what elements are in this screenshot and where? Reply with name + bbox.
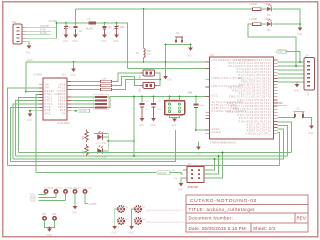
wire IC2 VCC pin: [26, 91, 39, 93]
ground below S1: [308, 126, 314, 136]
svg-text:SHD: SHD: [45, 113, 52, 115]
node LED2 rail junction: [299, 23, 301, 25]
IC1 bottom label: [210, 142, 236, 145]
mount hole H2 label: [143, 207, 185, 212]
svg-text:RG: RG: [267, 14, 271, 17]
node IC2 VCC junction: [25, 91, 27, 93]
label TJ01: [30, 193, 36, 196]
svg-text:FB02: FB02: [58, 94, 66, 96]
wire S2 left leg to VCC rail: [165, 45, 167, 63]
wire IC2 to RN1 row3: [71, 103, 95, 105]
op-amp IC2 USB bridge box: [43, 78, 67, 120]
label VUSB5: [49, 19, 58, 23]
testpoint TP2: [54, 190, 57, 198]
node rail junction x196: [195, 96, 197, 98]
node S1 left: [293, 117, 295, 119]
wire LED1 to right: [273, 9, 301, 28]
connector JP2 name: [308, 91, 310, 96]
ground below fuse rail: [163, 76, 172, 82]
wire VCC down to IC2: [25, 62, 27, 92]
ground right of LEDs: [297, 28, 303, 37]
node resonator junction b: [179, 96, 181, 98]
wire crystal right bus: [155, 73, 161, 86]
wire IC1 to JP2 pin5: [278, 77, 305, 79]
wire ISP SCK up: [204, 156, 219, 174]
wire IC1 to JP2 pin6: [278, 81, 305, 83]
wire ISP MOSI up: [204, 153, 223, 179]
node TXRX junction: [107, 140, 109, 142]
pushbutton S1 label: [297, 107, 301, 111]
svg-text:GND: GND: [171, 125, 176, 127]
resistor R1 22R: [71, 73, 141, 83]
svg-text:GND: GND: [297, 34, 302, 36]
svg-text:C9: C9: [145, 101, 149, 103]
svg-text:UTP-CDRC: UTP-CDRC: [96, 143, 108, 145]
title block text: Sheet row: [253, 226, 276, 231]
svg-text:UCM00: UCM00: [33, 73, 42, 77]
LED2 label: [265, 18, 272, 21]
LED D2: [267, 19, 272, 26]
testpoint TP6: [43, 217, 46, 220]
svg-text:F1: F1: [136, 52, 139, 55]
svg-text:RS: RS: [174, 178, 178, 180]
resonator Q3: [165, 101, 185, 115]
svg-text:mA: mA: [147, 53, 151, 56]
node serial junction RX: [295, 65, 297, 67]
resistor R5: [253, 23, 262, 26]
svg-text:9N0dN0dN0dN0dV0LNE2.8: 9N0dN0dN0dN0dV0LNE2.8: [146, 210, 184, 212]
ground below VCC rail: [70, 69, 76, 78]
svg-text:170RM: 170RM: [249, 18, 257, 21]
wire IC1 spare down: [278, 133, 280, 166]
svg-text:GND: GND: [72, 213, 77, 215]
label IC2 refdes: [33, 73, 66, 77]
testpoint TP7: [53, 217, 56, 220]
label TJ03 net: [277, 102, 283, 105]
svg-text:REV:: REV:: [297, 216, 307, 221]
resistor R5 label: [249, 18, 257, 21]
capacitor C5: [64, 23, 68, 35]
IC1 right column pin names: [227, 59, 272, 136]
wire X1 pin5 to ground: [26, 42, 29, 46]
node ISP rail A junction: [222, 152, 224, 154]
wire top rail: [76, 8, 253, 10]
wire +5V rail: [110, 96, 206, 98]
capacitor C11 label: [199, 105, 205, 107]
wire rail A: [19, 152, 292, 154]
svg-text:(PB6(XTAL1/PCB6): (PB6(XTAL1/PCB6): [212, 77, 244, 80]
node top rail junction: [143, 8, 145, 10]
label UCC: [27, 58, 33, 62]
label TJ05: [30, 199, 36, 202]
svg-text:H3: H3: [126, 219, 130, 221]
node S2 left junction: [165, 44, 167, 46]
testpoint TP5: [83, 190, 86, 204]
svg-text:H2: H2: [143, 207, 147, 209]
LED D3 label: [96, 143, 108, 145]
wire X1 pin4 to VUSB rail: [26, 23, 57, 38]
mount hole H3 label: [126, 219, 130, 221]
mount hole H4: [135, 218, 141, 224]
svg-text:TJ03: TJ03: [277, 102, 283, 105]
svg-text:D-5A: D-5A: [40, 28, 46, 32]
svg-text:(PB7(XTAL2/PCB7): (PB7(XTAL2/PCB7): [212, 85, 244, 88]
label net UCC5B: [40, 24, 49, 28]
svg-text:UCC5B: UCC5B: [40, 24, 49, 28]
ground below holes column2: [128, 226, 134, 235]
wire IC2 pin to rail E: [11, 108, 40, 162]
wire ISP pin5 to ground: [181, 178, 187, 183]
label net D-5: [40, 28, 46, 32]
resistor R4: [253, 8, 262, 11]
wire IC1 TX to serial connector: [278, 61, 305, 63]
wire RN1 outputs to rail: [107, 97, 110, 108]
wire top rail to fuse: [143, 9, 145, 48]
node rail junction x134: [133, 96, 135, 98]
svg-text:1K0: 1K0: [83, 135, 85, 140]
svg-text:1u: 1u: [69, 26, 72, 29]
node resonator junction a: [169, 96, 171, 98]
testpoint TP1: [44, 190, 47, 195]
node VCC junction at 73.5: [73, 61, 75, 63]
resistor R2 22R: [71, 77, 141, 87]
node S1 right: [302, 117, 304, 119]
capacitor C5 value: [69, 26, 72, 29]
title block text: REV: [297, 216, 307, 221]
wire IC1 to JP2 pin4: [278, 73, 305, 75]
node serial junction TX: [299, 61, 301, 63]
svg-text:170RM: 170RM: [249, 3, 257, 6]
svg-text:UCC: UCC: [27, 58, 33, 62]
wire TX LED anode: [103, 136, 109, 138]
connector JP2 label: [305, 55, 310, 58]
svg-text:FB01: FB01: [58, 104, 66, 106]
resistor R3 22R: [71, 80, 160, 91]
svg-text:GND: GND: [26, 53, 31, 55]
resistor network RN1: [94, 95, 109, 110]
svg-text:1u: 1u: [145, 109, 148, 111]
svg-text:AVR ISP: AVR ISP: [188, 185, 199, 189]
svg-text:10u: 10u: [108, 26, 113, 29]
connector X1 label: [12, 20, 17, 24]
wire rail B: [16, 155, 288, 157]
wire IC1 ISP MISO down: [278, 122, 292, 152]
wire X1 pin2 net: [26, 30, 51, 32]
capacitor C12 polarized: [103, 23, 107, 35]
resistor R6 vertical: [85, 130, 89, 143]
svg-text:FVCL: FVCL: [58, 88, 66, 90]
svg-text:TW: TW: [61, 113, 66, 115]
svg-text:GND: GND: [195, 153, 200, 155]
capacitor C8 label: [145, 101, 149, 112]
svg-text:PTD2: PTD2: [45, 101, 53, 103]
wire TP5 net: [85, 203, 88, 205]
IC2 left pin stubs: [39, 85, 43, 111]
svg-text:CUTARG-NOTOUINO-02: CUTARG-NOTOUINO-02: [190, 198, 257, 204]
wire resonator bottom to ground: [170, 115, 180, 119]
svg-text:GND: GND: [72, 41, 77, 43]
ferrite bead L5: [86, 17, 96, 31]
IC2 bottom label: [57, 122, 70, 125]
node rail junction x142: [141, 96, 143, 98]
node TP pair junction: [49, 227, 51, 229]
LED D4 RX: [97, 145, 103, 154]
IC2 left column pin names: [45, 85, 61, 116]
svg-text:TW: TW: [45, 85, 50, 87]
wire IC1 ISP SCK down: [278, 126, 288, 157]
node rail junction x153.5: [153, 96, 155, 98]
capacitor C11 inline: [194, 97, 199, 131]
svg-text:Lm16-28Ma: Lm16-28Ma: [57, 122, 70, 125]
svg-text:AGND(ADC/PC): AGND(ADC/PC): [246, 133, 272, 136]
svg-text:FB03: FB03: [58, 97, 66, 99]
capacitor C6 value: [79, 30, 84, 33]
IC1 left pin stubs: [206, 62, 210, 133]
wire RX LED to junction: [103, 141, 109, 151]
svg-text:GND: GND: [101, 41, 106, 43]
crystal Q2: [141, 83, 158, 89]
ground below S2: [187, 48, 193, 58]
wire vertical x134: [133, 97, 135, 157]
wire flag to ISP: [170, 173, 183, 175]
node RN junction: [75, 110, 77, 112]
LED D4 label: [96, 157, 108, 159]
node junction C at 75.5: [75, 22, 77, 24]
connector ISP label 2x3: [188, 164, 193, 167]
svg-text:MI: MI: [172, 170, 175, 172]
svg-text:+5V: +5V: [188, 91, 193, 95]
capacitor C6 polarized: [74, 23, 78, 35]
wire TP3 net: [39, 200, 66, 202]
svg-text:FB02: FB02: [58, 101, 66, 103]
mount hole H2: [135, 206, 141, 212]
wire IC2 to GND flag: [71, 110, 77, 112]
resistor R7 label: [83, 150, 85, 155]
node AREF junction: [195, 129, 197, 131]
svg-text:GND: GND: [294, 91, 299, 93]
net flag RESET: [157, 171, 171, 175]
crystal Q2 label: [140, 88, 142, 93]
svg-text:RESET: RESET: [159, 172, 168, 175]
svg-text:T1P: T1P: [42, 213, 47, 216]
svg-text:16M: 16M: [140, 88, 142, 93]
wire IC2 pin to rail A: [19, 98, 40, 153]
svg-text:RESET: RESET: [45, 91, 55, 93]
fuse F1 labels: [136, 50, 151, 56]
svg-text:(PCI/RESET/PCINT)PD3: (PCI/RESET/PCINT)PD3: [212, 59, 253, 62]
svg-text:GND: GND: [112, 233, 117, 235]
pushbutton S1: [294, 112, 305, 117]
svg-text:JP1: JP1: [12, 20, 17, 24]
wire IC2 pin to ground: [30, 111, 39, 114]
svg-text:VCC: VCC: [212, 95, 219, 98]
svg-text:GND: GND: [308, 133, 313, 135]
connector X1 body: [13, 24, 22, 44]
capacitor C8: [140, 97, 145, 119]
capacitor C12 value: [108, 26, 113, 29]
svg-text:S1: S1: [297, 107, 301, 111]
node S2 right junction: [190, 44, 192, 46]
connector ISP name: [188, 185, 199, 189]
wire rail E: [8, 165, 280, 167]
node crystal bus junction: [159, 79, 161, 81]
svg-text:TW-: TW-: [45, 88, 51, 90]
svg-text:LED1: LED1: [265, 3, 272, 6]
svg-text:PTD1: PTD1: [45, 97, 53, 99]
connector JP2 serial: [304, 58, 315, 91]
node VUSB junction: [56, 22, 58, 24]
svg-text:L5: L5: [88, 17, 91, 21]
wire IC2 pin to rail C: [13, 104, 39, 159]
svg-text:GND: GND: [63, 41, 68, 43]
mount hole H4 label: [143, 219, 185, 224]
wire IC1 to button S1: [278, 117, 294, 119]
svg-text:1K0: 1K0: [83, 150, 85, 155]
svg-text:BvB: BvB: [60, 110, 66, 112]
capacitor C13: [115, 23, 119, 35]
svg-text:GND: GND: [46, 235, 51, 237]
capacitor C10 label: [157, 101, 163, 112]
wire fuse to VCC rail: [143, 57, 145, 62]
resistor R6 label: [83, 135, 85, 140]
resistor R4 label: [249, 3, 257, 6]
svg-text:BLM21: BLM21: [86, 28, 94, 31]
ground below TP4: [72, 206, 78, 215]
capacitor C13 value: [120, 26, 126, 29]
label uCAP5: [89, 203, 98, 206]
svg-text:100n: 100n: [120, 26, 126, 29]
ground below X1: [26, 46, 32, 55]
title block text: TITLE row: [189, 207, 256, 212]
connector X1 pin stubs: [22, 28, 26, 42]
capacitor C10: [151, 97, 156, 119]
svg-text:UCAP: UCAP: [57, 90, 66, 93]
wire S1 to ground: [304, 118, 312, 126]
ground below C5: [63, 35, 69, 43]
svg-text:TX0: TX0: [278, 51, 283, 54]
wire IC1 RX to serial connector: [278, 65, 305, 67]
ground below C6: [72, 35, 78, 43]
fuse F1: [144, 49, 146, 58]
wire R5 to LED2: [262, 23, 267, 25]
wire holes column1 to ground: [115, 209, 118, 226]
mount hole H1: [118, 206, 124, 212]
wire TP6 TP7 to ground: [45, 220, 55, 229]
ground below IC1: [195, 142, 201, 156]
svg-text:4u7: 4u7: [79, 30, 84, 33]
ground below C8: [139, 118, 145, 127]
mount hole H1 label: [126, 207, 130, 209]
wire holes column2 to ground: [132, 209, 135, 226]
crystal Q1 label: [140, 75, 142, 80]
wire AREF to IC1: [196, 129, 206, 131]
net flag GND at IC2: [78, 109, 90, 113]
wire IC2 pin to rail B: [16, 101, 40, 157]
svg-text:100n: 100n: [199, 105, 205, 107]
svg-text:GND: GND: [167, 80, 172, 82]
svg-text:Date: 25/05/2015 6:16 PM: Date: 25/05/2015 6:16 PM: [189, 226, 246, 231]
ground below TP pair: [46, 229, 52, 238]
LED D1: [267, 4, 272, 11]
wire IC1 to JP2 pin3: [278, 69, 305, 71]
svg-text:TJ05: TJ05: [30, 199, 36, 202]
svg-text:C10: C10: [157, 101, 162, 103]
pushbutton S2 label: [176, 31, 180, 35]
wire TX flag to serial net: [286, 52, 300, 63]
title block frame: [186, 195, 308, 232]
wire resonator to bottom rail: [175, 130, 177, 162]
svg-text:GND: GND: [128, 233, 133, 235]
svg-text:GND: GND: [178, 190, 183, 192]
svg-text:ATMEGA48/88/168-AU: ATMEGA48/88/168-AU: [210, 142, 236, 145]
wire reset rail: [36, 172, 156, 174]
wire rail C: [13, 158, 284, 160]
wire VUSB rail: [57, 23, 128, 69]
LED2 color label: [267, 29, 271, 32]
crystal Q1: [141, 70, 158, 76]
svg-text:PTD3: PTD3: [45, 104, 53, 106]
wire IC2 reset to flag rail: [36, 95, 39, 173]
wire TJ03: [278, 104, 288, 106]
wire R4 to LED1: [262, 8, 267, 10]
wire TX LED loop: [94, 134, 108, 142]
wire IC2 pin to rail E: [8, 88, 40, 166]
svg-text:Sheet: 2/2: Sheet: 2/2: [253, 226, 276, 231]
wire LED2 to rail junction: [273, 23, 301, 25]
testpoint TP4: [73, 190, 76, 206]
ground below C13: [113, 35, 119, 43]
svg-text:RG: RG: [267, 29, 271, 32]
node fuse VCC junction: [143, 61, 145, 63]
node S2 VCC junction: [165, 61, 167, 63]
wire ISP pin1: [183, 169, 187, 171]
wire LED2 left branch: [248, 24, 296, 66]
svg-text:GND: GND: [187, 56, 192, 58]
svg-text:H4: H4: [143, 219, 147, 221]
resonator Q3 label: [166, 99, 178, 101]
IC1 left column pin names: [212, 59, 253, 134]
ground below C10: [150, 118, 156, 127]
ground below resonator: [171, 119, 177, 128]
wire VUSB up to top rail: [75, 9, 77, 23]
testpoint names row: [44, 187, 92, 190]
svg-text:PCWPA/SCBL/VCAP3: PCWPA/SCBL/VCAP3: [212, 110, 247, 113]
wire S2 right leg down: [190, 45, 192, 48]
svg-text:UGND: UGND: [80, 110, 87, 113]
LED1 label: [265, 3, 272, 6]
wire S2 VCC to ground stub: [165, 62, 167, 76]
svg-text:IC1: IC1: [210, 53, 215, 57]
node IC2 gnd junction: [29, 110, 31, 112]
svg-text:T08: T08: [52, 213, 57, 216]
svg-text:100n: 100n: [157, 109, 163, 111]
wire IC2 to RN1 row1: [71, 96, 95, 98]
svg-text:GND: GND: [139, 125, 144, 127]
node ISP rail B junction: [218, 155, 220, 157]
IC1 right pin stubs: [274, 60, 278, 134]
IC2 right pin stubs: [67, 82, 71, 111]
ground below C12: [101, 35, 107, 43]
LED1 color label: [267, 14, 271, 17]
mount hole H3: [118, 218, 124, 224]
svg-text:SHB: SHB: [59, 85, 65, 87]
svg-text:AGND: AGND: [212, 131, 222, 134]
wire VCC rail: [26, 61, 206, 63]
wire X1 pin3 net: [26, 34, 51, 36]
label GND5: [30, 196, 38, 199]
testpoint TP3: [64, 190, 67, 201]
svg-text:GND: GND: [150, 125, 155, 127]
